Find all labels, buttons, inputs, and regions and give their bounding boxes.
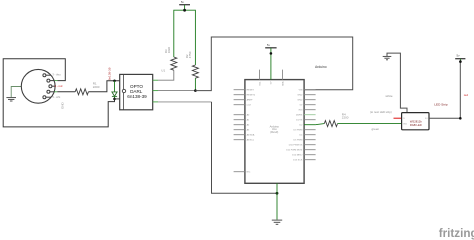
svg-text:DARL: DARL [130,89,143,94]
svg-text:AREF: AREF [247,99,253,102]
pin 3V3 (green tint) [304,114,316,116]
wire R3 top to 5V rail [174,10,196,65]
svg-text:GND: GND [403,124,408,126]
wire Arduino GND down (green) [276,183,278,219]
Arduino left pin labels [247,90,256,174]
node corner junction [459,117,462,120]
wire opto pin6 [158,101,212,103]
DIN pin 1 [43,74,51,77]
wire opto pin7 stub (green) [153,90,158,92]
svg-text:D5 PWM: D5 PWM [294,140,303,142]
svg-text:D3 PWM: D3 PWM [294,130,303,132]
svg-text:ioref: ioref [247,104,252,107]
wire opto pin6 stub (green) [153,101,158,103]
svg-text:RESET2: RESET2 [247,95,256,97]
svg-text:(to next LED strip): (to next LED strip) [370,110,392,114]
node 5V junction [183,9,186,12]
svg-text:D10 PWM SS: D10 PWM SS [289,145,303,147]
wire DIN pin2 green tick [55,80,58,82]
svg-text:A4/SDA: A4/SDA [247,134,255,137]
wire opto pin8 stub (green) [153,79,158,81]
node cathode junction [114,96,116,99]
wire R2 bottom to pin7 junction [194,78,196,90]
wire D-pin to R4 (green) [316,124,325,125]
svg-text:red: red [464,93,469,97]
svg-text:A5/SCL: A5/SCL [247,139,255,142]
svg-text:GND: GND [297,95,302,97]
Arduino top pin stubs [259,70,261,80]
DIN pin 4 [47,90,55,93]
wire 5V to Arduino top pin (green) [270,48,272,80]
svg-text:U1: U1 [161,69,165,73]
Arduino box U2 [245,80,304,184]
resistor R1 [75,89,88,95]
diode D (opto input LED) [112,92,117,97]
wire white (LED GND) [387,53,407,113]
svg-text:LED Strip: LED Strip [434,102,448,106]
LED module WS2812b box [402,113,429,130]
svg-text:5 - wht: 5 - wht [52,95,60,99]
wire pin7 junction to VIN rail (black loop) [195,37,352,91]
svg-text:GND: GND [61,102,65,110]
svg-text:RESET: RESET [247,90,255,92]
svg-text:6n138-39: 6n138-39 [127,94,147,99]
DIN-5 connector J1 shell [21,69,55,103]
svg-text:VIN: VIN [299,90,303,92]
svg-text:D1/TX: D1/TX [296,120,303,122]
svg-text:2200: 2200 [342,116,349,120]
svg-text:N/C: N/C [247,172,251,174]
svg-text:green: green [372,127,380,131]
node GND junction under Arduino [276,192,279,195]
Arduino left pins [234,90,245,172]
wire cathode into opto [115,98,124,100]
resistor R4 [324,121,337,127]
svg-text:WS2812b: WS2812b [410,119,422,123]
ground GND3 (top right) [383,56,392,59]
svg-text:white: white [386,94,393,98]
wire R4 to WS2812 DI (green) [338,123,402,125]
node R2/pin7 junction [194,89,197,92]
wire ground stem to DIN shell [11,87,21,98]
wire pin6 down to GND junction (black) [212,102,278,193]
node anode junction [113,80,116,83]
svg-text:4 - red: 4 - red [55,84,63,88]
wire R1 to opto anode [88,81,123,92]
svg-text:D11 PWM MOSI: D11 PWM MOSI [286,150,302,152]
Arduino right pins [304,90,316,160]
opto pin ring [122,89,125,92]
svg-text:SDA: SDA [281,81,284,86]
ground GND2 (under Arduino) [272,220,282,224]
ground GND1 (left of DIN) [6,98,16,101]
wire DIN pin4 to R1 [57,91,75,93]
svg-text:fritzing: fritzing [439,227,474,240]
wire WS2812 DO to 5V (dark) [429,61,460,119]
wire opto pin8 to R3 [158,70,174,80]
svg-text:Arduino: Arduino [315,65,327,69]
wire opto pin7 [158,90,195,92]
svg-text:4750: 4750 [188,51,192,58]
resistor R2 (vertical) [192,65,198,78]
resistor R3 (vertical) [171,57,177,70]
DIN pin 5 [43,96,51,99]
op-amp opto box U1 [120,74,153,109]
Arduino right pin labels [286,90,303,162]
svg-text:D12 MISO: D12 MISO [292,155,303,157]
DIN pin 2 [47,79,55,82]
opto inner pin line [122,74,124,109]
pin D2 stub (green, connected) [304,124,316,126]
svg-text:10k0: 10k0 [167,46,171,53]
wire DIN pin2 ground loop (black) [3,59,114,127]
svg-text:6n138-39: 6n138-39 [107,67,111,80]
wire DIN pin4 green tick [54,91,57,93]
svg-text:RGB LED: RGB LED [410,123,422,127]
svg-text:(Rev3): (Rev3) [270,130,278,134]
svg-text:D13 SCK: D13 SCK [293,160,303,162]
svg-text:GND: GND [297,100,302,102]
svg-text:D0/RX: D0/RX [296,115,303,117]
opto LED anode drop wire [114,81,116,92]
svg-text:2200: 2200 [93,85,100,89]
DIN pin 3 [49,85,55,88]
wire to next LED strip (red stub) [394,117,402,119]
svg-text:3 - thru: 3 - thru [52,73,61,77]
